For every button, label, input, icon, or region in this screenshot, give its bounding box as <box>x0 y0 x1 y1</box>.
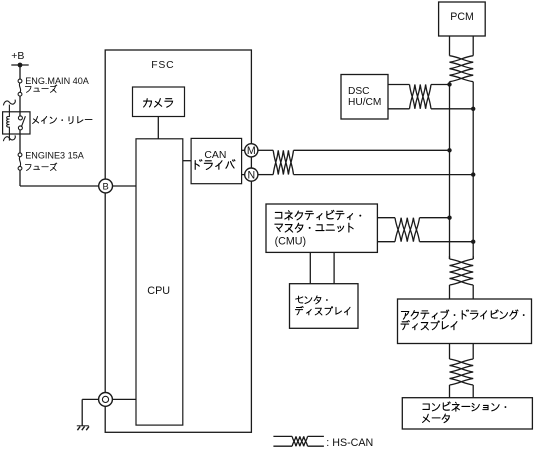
svg-text:N: N <box>247 170 255 182</box>
junction DSC low <box>471 107 475 111</box>
label DSC <box>348 86 381 108</box>
svg-text:B: B <box>102 180 108 191</box>
junction DSC high <box>447 82 451 86</box>
twisted pair PCM to bus <box>450 36 474 84</box>
label combination meter katakana line1 コンビネーション・ <box>423 402 507 411</box>
label CAN driver katakana ドライバ <box>195 160 235 170</box>
CPU box <box>136 139 183 425</box>
wire fuse F2 down and right to terminal B <box>20 170 99 186</box>
label relay katakana メイン・リレー <box>33 116 92 123</box>
label center display katakana line2 ディスプレイ <box>295 306 350 315</box>
camera box <box>133 87 185 117</box>
label CPU <box>147 285 170 297</box>
svg-text:: HS-CAN: : HS-CAN <box>326 437 373 449</box>
svg-text:(CMU): (CMU) <box>275 236 306 248</box>
label fuse2 katakana <box>25 163 57 171</box>
DSC HU/CM box <box>341 75 388 120</box>
svg-text:PCM: PCM <box>450 11 474 23</box>
relay K1 main relay (box, coil, switch) <box>3 100 30 142</box>
wire CPU to CAN driver <box>183 160 191 162</box>
legend twisted pair symbol <box>273 436 324 446</box>
fuse F2 (two circles with wavy element) <box>18 153 22 170</box>
svg-text:HU/CM: HU/CM <box>348 97 381 108</box>
twisted pair FSC M/N to bus <box>258 150 473 174</box>
wire camera to CPU <box>157 117 159 139</box>
label FSC <box>151 60 174 71</box>
CAN driver box <box>191 138 242 183</box>
wire CMU to center display left <box>309 252 311 283</box>
svg-text:FSC: FSC <box>151 60 174 71</box>
terminal O (double circle) <box>99 393 113 407</box>
svg-text:CAN: CAN <box>204 150 226 161</box>
terminal M <box>245 144 258 158</box>
ground symbol <box>77 426 89 430</box>
center display box <box>290 284 359 329</box>
junction FSC high <box>447 148 451 152</box>
svg-text:ENGINE3 15A: ENGINE3 15A <box>25 150 85 160</box>
svg-text:CPU: CPU <box>147 285 170 297</box>
wire CAN driver to terminal M <box>242 149 245 151</box>
label CMU line3 <box>275 236 306 248</box>
label fuse1 katakana <box>25 85 57 93</box>
twisted pair CMU to bus <box>377 218 473 242</box>
label PCM <box>450 11 474 23</box>
label ADD katakana line2 ディスプレイ <box>401 321 457 330</box>
active driving display box <box>398 299 532 344</box>
terminal B <box>99 179 113 193</box>
CAN bus left line <box>449 84 451 259</box>
node +B battery label <box>11 50 24 62</box>
label ADD katakana line1 アクティブ・ドライビング・ <box>401 310 524 319</box>
wire CAN driver to terminal N <box>242 174 245 176</box>
junction CMU high <box>447 216 451 220</box>
PCM box <box>439 2 486 36</box>
label combination meter katakana line2 メータ <box>423 414 450 423</box>
wire +B rail to fuse F1 <box>19 65 21 79</box>
twisted pair ADD to combination meter <box>450 344 474 398</box>
wire terminal O to ground <box>82 399 98 425</box>
connectivity master unit CMU box <box>266 204 377 252</box>
label CAN <box>204 150 226 161</box>
terminal N <box>245 168 258 182</box>
wire CMU to center display right <box>333 252 335 283</box>
combination meter box <box>402 398 532 429</box>
label CMU katakana line2 マスタ・ユニット <box>275 223 353 232</box>
svg-text:+B: +B <box>11 50 24 62</box>
label CMU katakana line1 コネクティビティ・ <box>275 210 361 220</box>
label ENG.MAIN 40A <box>25 76 90 86</box>
svg-text:DSC: DSC <box>348 86 370 97</box>
wire fuse F1 to relay <box>19 96 21 116</box>
wire terminal B to CPU <box>113 185 137 187</box>
junction CMU low <box>471 240 475 244</box>
svg-text:M: M <box>247 145 256 157</box>
svg-text:ENG.MAIN 40A: ENG.MAIN 40A <box>25 76 90 86</box>
label center display katakana line1 センタ・ <box>296 296 328 304</box>
wire relay to fuse F2 <box>19 130 21 153</box>
power rail with junction <box>11 63 28 68</box>
label ENGINE3 15A <box>25 150 85 160</box>
twisted pair bus to active driving display <box>450 256 474 299</box>
twisted pair DSC to bus <box>388 85 473 109</box>
label camera katakana カメラ <box>144 99 173 108</box>
fuse F1 (two circles with wavy element) <box>18 79 22 96</box>
CAN bus right line <box>472 84 474 259</box>
wire terminal O to CPU <box>112 398 136 400</box>
junction FSC low <box>471 172 475 176</box>
legend label HS-CAN <box>326 437 373 449</box>
FSC ECU box <box>105 50 251 432</box>
